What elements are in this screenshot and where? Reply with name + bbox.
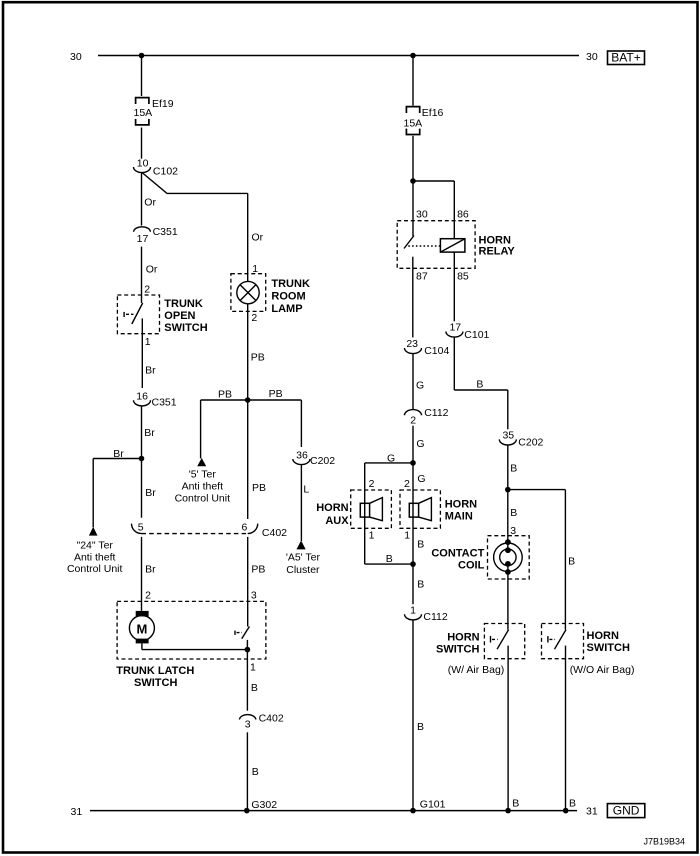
svg-text:G302: G302 bbox=[251, 799, 277, 811]
svg-text:SWITCH: SWITCH bbox=[134, 677, 177, 689]
svg-text:B: B bbox=[417, 539, 424, 551]
svg-text:B: B bbox=[251, 682, 258, 694]
svg-text:2: 2 bbox=[145, 589, 151, 601]
svg-text:17: 17 bbox=[137, 233, 149, 245]
svg-text:6: 6 bbox=[241, 522, 247, 534]
svg-text:87: 87 bbox=[416, 271, 428, 283]
svg-text:LAMP: LAMP bbox=[271, 303, 302, 315]
svg-text:Control Unit: Control Unit bbox=[67, 563, 123, 575]
svg-text:B: B bbox=[569, 798, 576, 810]
svg-text:M: M bbox=[136, 622, 147, 637]
svg-text:Cluster: Cluster bbox=[286, 564, 320, 576]
svg-text:Br: Br bbox=[145, 365, 156, 377]
svg-text:Or: Or bbox=[252, 232, 264, 244]
svg-text:85: 85 bbox=[457, 271, 469, 283]
svg-text:30: 30 bbox=[70, 51, 82, 63]
svg-text:Or: Or bbox=[146, 264, 158, 276]
svg-text:2: 2 bbox=[404, 478, 410, 490]
svg-text:B: B bbox=[510, 463, 517, 475]
svg-text:SWITCH: SWITCH bbox=[587, 642, 630, 654]
svg-text:J7B19B34: J7B19B34 bbox=[643, 837, 685, 847]
svg-text:17: 17 bbox=[449, 322, 461, 334]
svg-text:30: 30 bbox=[586, 51, 598, 63]
svg-text:HORN: HORN bbox=[445, 498, 477, 510]
svg-text:TRUNK: TRUNK bbox=[164, 298, 203, 310]
svg-text:"24" Ter: "24" Ter bbox=[76, 540, 113, 552]
svg-text:SWITCH: SWITCH bbox=[164, 322, 207, 334]
svg-text:2: 2 bbox=[251, 312, 257, 324]
svg-text:Br: Br bbox=[145, 564, 156, 576]
svg-text:GND: GND bbox=[613, 803, 640, 817]
svg-text:31: 31 bbox=[71, 806, 83, 818]
svg-text:1: 1 bbox=[404, 530, 410, 542]
svg-text:15A: 15A bbox=[404, 117, 423, 129]
svg-text:Br: Br bbox=[144, 427, 155, 439]
svg-text:C351: C351 bbox=[153, 226, 178, 238]
svg-text:B: B bbox=[417, 721, 424, 733]
svg-text:16: 16 bbox=[136, 390, 148, 402]
svg-text:PB: PB bbox=[218, 389, 232, 401]
svg-text:5: 5 bbox=[138, 522, 144, 534]
svg-text:TRUNK LATCH: TRUNK LATCH bbox=[116, 665, 194, 677]
svg-text:HORN: HORN bbox=[479, 234, 511, 246]
svg-text:2: 2 bbox=[410, 414, 416, 426]
svg-text:'A5' Ter: 'A5' Ter bbox=[286, 552, 321, 564]
svg-text:15A: 15A bbox=[134, 107, 153, 119]
svg-text:1: 1 bbox=[145, 336, 151, 348]
svg-text:3: 3 bbox=[245, 718, 251, 730]
svg-text:B: B bbox=[568, 556, 575, 568]
svg-text:3: 3 bbox=[251, 589, 257, 601]
svg-text:C112: C112 bbox=[423, 611, 447, 623]
svg-text:G101: G101 bbox=[420, 798, 446, 810]
svg-text:C351: C351 bbox=[152, 397, 177, 409]
svg-text:Anti theft: Anti theft bbox=[74, 551, 116, 563]
svg-text:B: B bbox=[386, 553, 393, 565]
svg-text:C102: C102 bbox=[153, 165, 178, 177]
svg-text:C101: C101 bbox=[464, 329, 489, 341]
svg-text:1: 1 bbox=[410, 605, 416, 617]
svg-text:'5' Ter: '5' Ter bbox=[189, 469, 217, 481]
svg-text:C104: C104 bbox=[424, 345, 449, 357]
svg-text:CONTACT: CONTACT bbox=[431, 548, 484, 560]
svg-text:G: G bbox=[417, 473, 425, 485]
svg-text:L: L bbox=[303, 484, 309, 496]
svg-text:PB: PB bbox=[269, 388, 283, 400]
svg-text:OPEN: OPEN bbox=[164, 310, 195, 322]
svg-text:C402: C402 bbox=[259, 712, 284, 724]
svg-text:1: 1 bbox=[250, 662, 256, 674]
svg-text:35: 35 bbox=[502, 430, 514, 442]
svg-text:AUX: AUX bbox=[325, 515, 349, 527]
svg-text:PB: PB bbox=[252, 482, 266, 494]
svg-text:B: B bbox=[510, 507, 517, 519]
svg-text:C402: C402 bbox=[262, 527, 287, 539]
svg-text:B: B bbox=[252, 766, 259, 778]
svg-text:B: B bbox=[417, 578, 424, 590]
svg-text:Ef19: Ef19 bbox=[152, 98, 174, 110]
svg-text:G: G bbox=[416, 379, 424, 391]
svg-text:Br: Br bbox=[113, 448, 124, 460]
svg-text:B: B bbox=[512, 798, 519, 810]
svg-text:ROOM: ROOM bbox=[271, 291, 305, 303]
svg-text:C202: C202 bbox=[518, 436, 543, 448]
svg-text:30: 30 bbox=[416, 208, 428, 220]
svg-text:HORN: HORN bbox=[316, 502, 348, 514]
svg-text:23: 23 bbox=[406, 338, 418, 350]
svg-text:Control Unit: Control Unit bbox=[175, 493, 231, 505]
svg-text:G: G bbox=[416, 438, 424, 450]
svg-text:31: 31 bbox=[586, 806, 598, 818]
svg-text:BAT+: BAT+ bbox=[611, 51, 640, 65]
svg-text:Br: Br bbox=[145, 487, 156, 499]
svg-text:TRUNK: TRUNK bbox=[271, 278, 310, 290]
svg-text:10: 10 bbox=[137, 157, 149, 169]
svg-text:(W/O Air Bag): (W/O Air Bag) bbox=[570, 664, 635, 676]
svg-text:PB: PB bbox=[251, 352, 265, 364]
svg-text:86: 86 bbox=[457, 208, 469, 220]
svg-text:C202: C202 bbox=[310, 455, 335, 467]
svg-text:2: 2 bbox=[144, 284, 150, 296]
svg-text:1: 1 bbox=[369, 530, 375, 542]
svg-text:Anti theft: Anti theft bbox=[182, 481, 224, 493]
svg-text:COIL: COIL bbox=[458, 559, 485, 571]
svg-text:HORN: HORN bbox=[447, 632, 479, 644]
svg-text:Or: Or bbox=[144, 197, 156, 209]
svg-text:PB: PB bbox=[251, 564, 265, 576]
svg-text:HORN: HORN bbox=[587, 630, 619, 642]
svg-text:SWITCH: SWITCH bbox=[436, 644, 479, 656]
svg-text:36: 36 bbox=[296, 449, 308, 461]
svg-text:(W/ Air Bag): (W/ Air Bag) bbox=[448, 664, 505, 676]
svg-text:2: 2 bbox=[369, 478, 375, 490]
svg-text:Ef16: Ef16 bbox=[422, 107, 444, 119]
svg-text:MAIN: MAIN bbox=[445, 511, 473, 523]
svg-text:G: G bbox=[387, 453, 395, 465]
svg-text:RELAY: RELAY bbox=[479, 246, 516, 258]
svg-text:C112: C112 bbox=[424, 407, 448, 419]
svg-text:B: B bbox=[476, 378, 483, 390]
